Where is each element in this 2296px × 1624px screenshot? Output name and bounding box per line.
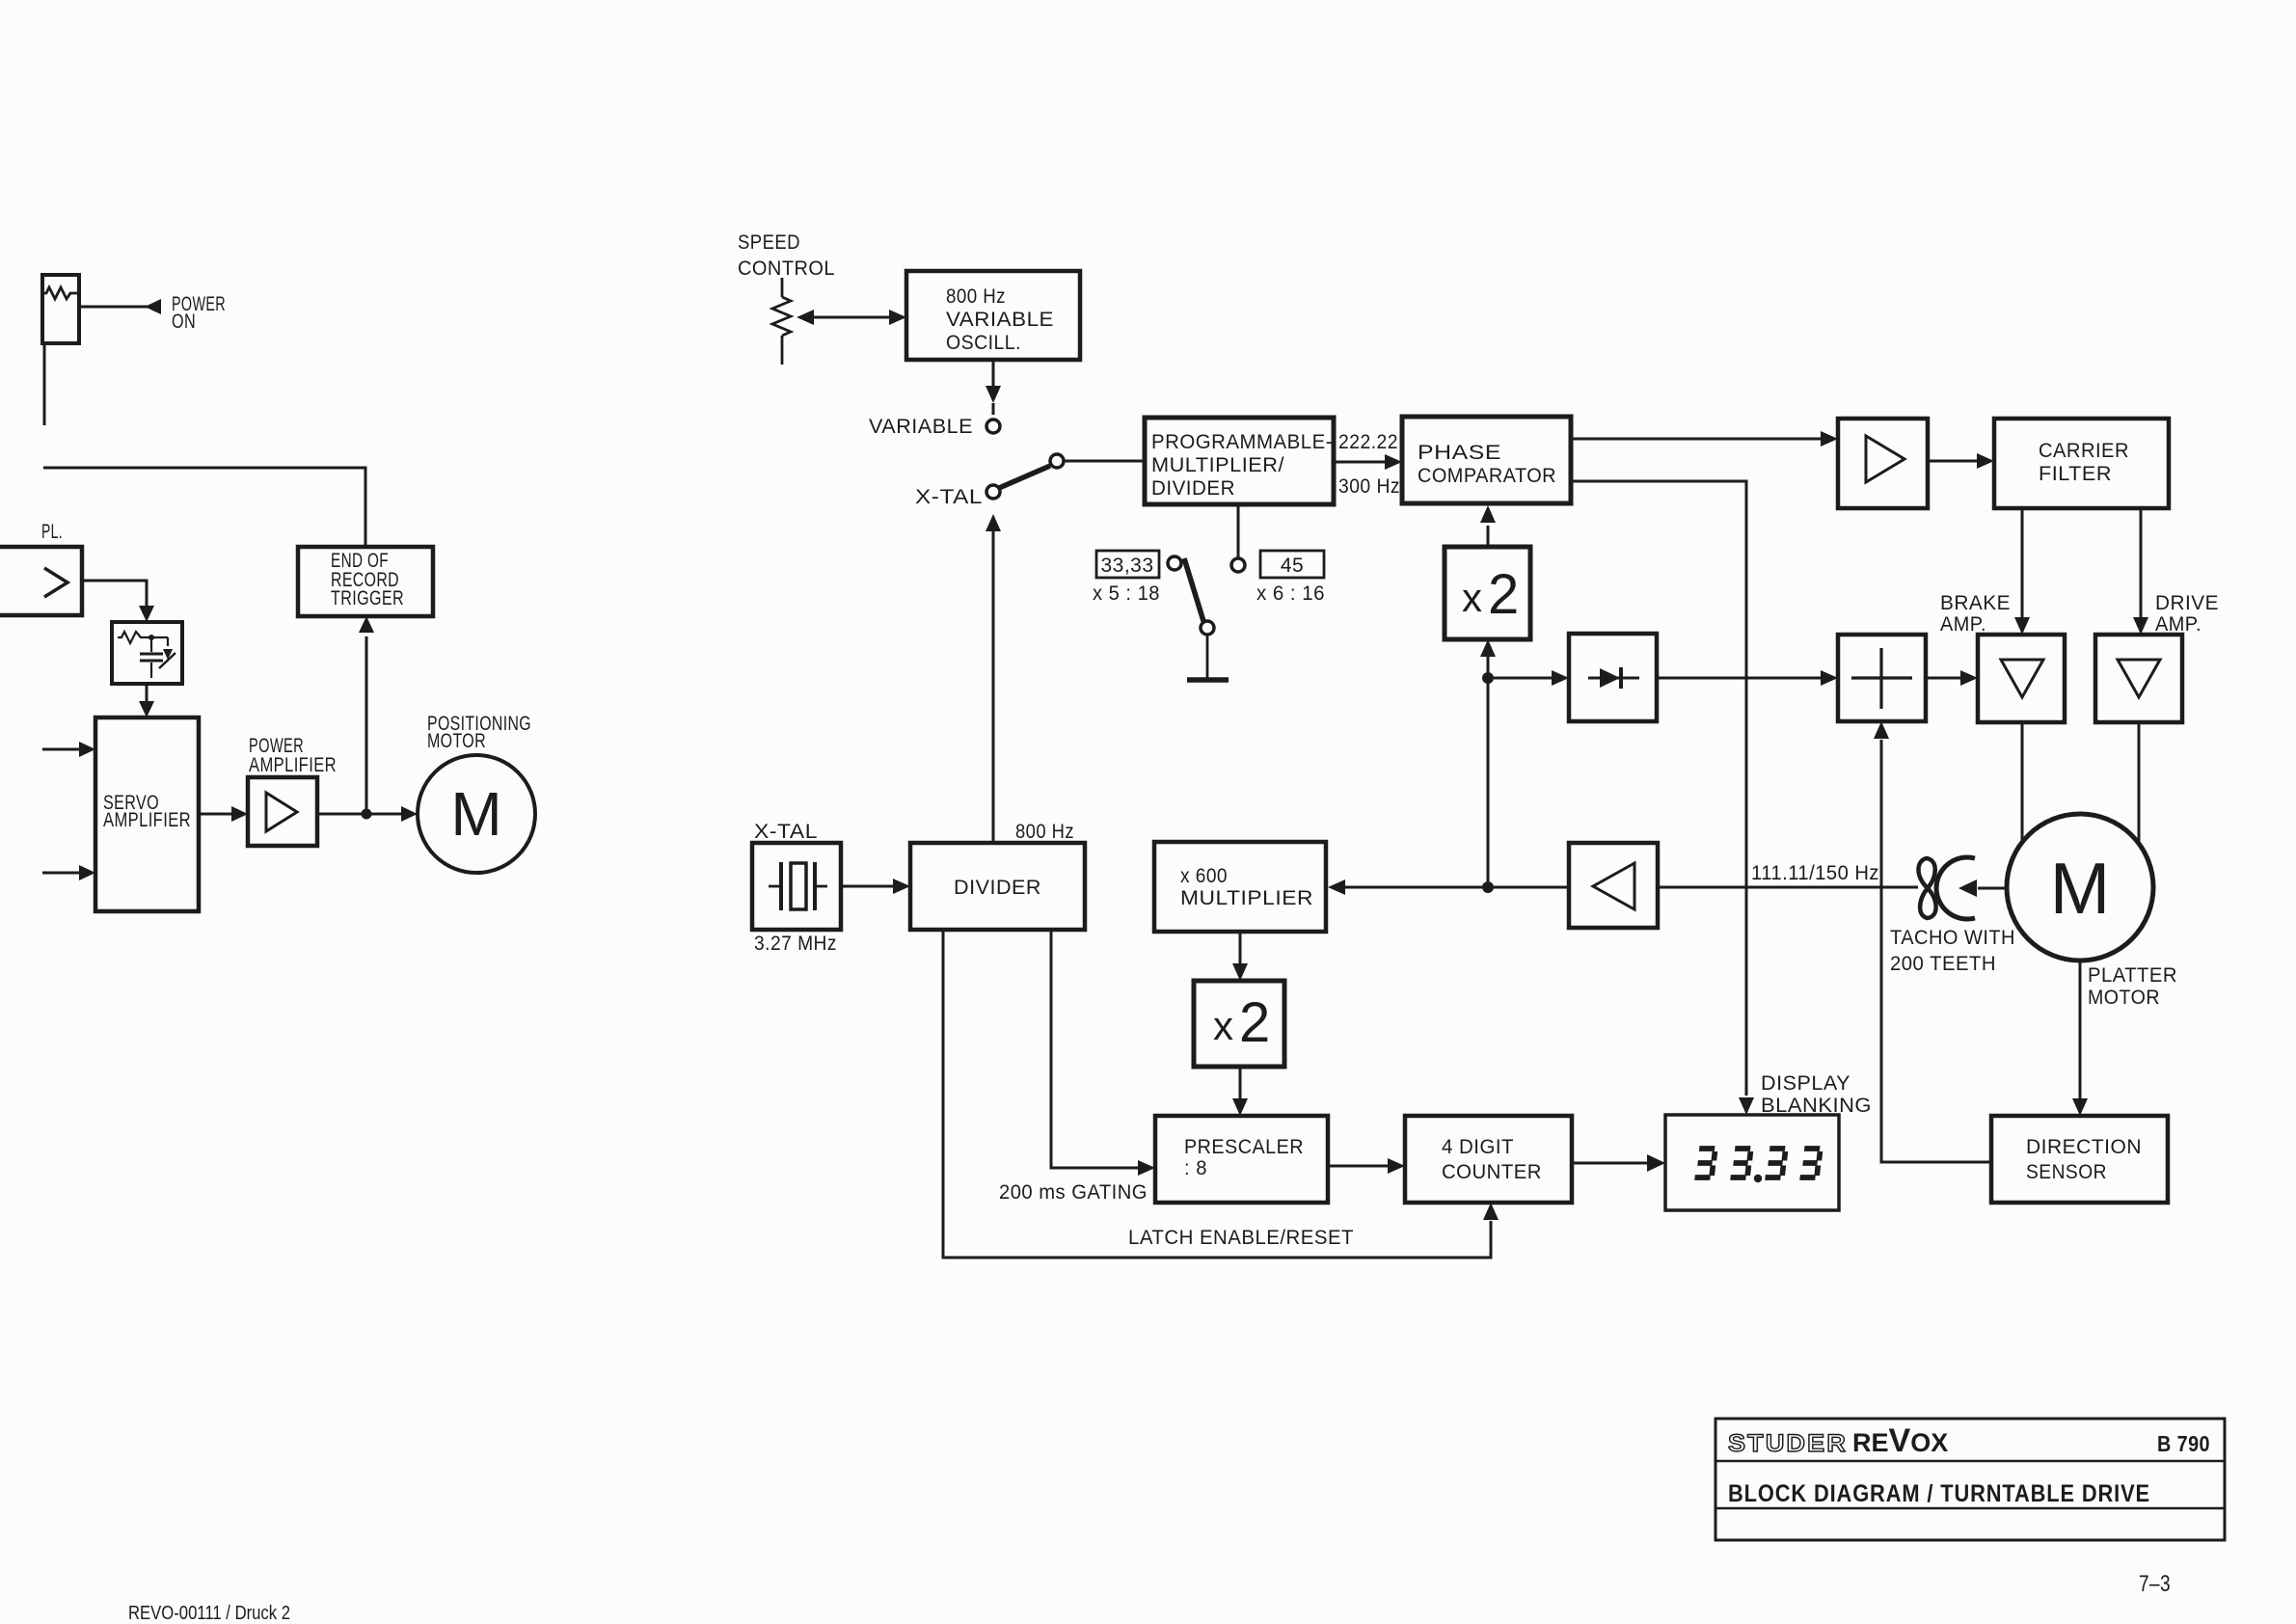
label 222.22 <box>1338 431 1398 453</box>
potentiometer SPEED CONTROL <box>772 278 791 365</box>
wire diode to summer <box>1657 670 1838 686</box>
block feedback amplifier (left) <box>1569 843 1658 928</box>
label B 790 <box>2157 1431 2210 1456</box>
mode contact (33 side) <box>1168 556 1181 570</box>
svg-text:AMPLIFIER: AMPLIFIER <box>103 809 191 831</box>
label x 5 : 18 <box>1093 582 1160 605</box>
svg-text:x 5 : 18: x 5 : 18 <box>1093 582 1160 605</box>
svg-text:AMP.: AMP. <box>2155 613 2201 636</box>
wire brake amp to motor <box>2021 722 2024 843</box>
block x600 MULTIPLIER <box>1154 842 1326 932</box>
label 800 Hz <box>1015 821 1074 843</box>
junction node at diode tap <box>1482 672 1494 684</box>
label PL. <box>41 521 63 543</box>
wire prescaler to counter <box>1328 1158 1405 1174</box>
svg-text:222.22: 222.22 <box>1338 431 1398 453</box>
svg-text:X-TAL: X-TAL <box>915 486 983 508</box>
VARIABLE contact <box>986 420 1000 433</box>
svg-text:800 Hz: 800 Hz <box>946 285 1006 308</box>
svg-text:DISPLAY: DISPLAY <box>1761 1072 1850 1095</box>
svg-text:800 Hz: 800 Hz <box>1015 821 1074 843</box>
svg-text:PRESCALER: PRESCALER <box>1184 1136 1304 1158</box>
svg-text:COUNTER: COUNTER <box>1442 1161 1542 1183</box>
wire programmable to mode contact <box>1237 504 1240 557</box>
svg-text:SENSOR: SENSOR <box>2026 1161 2107 1183</box>
svg-text:VARIABLE: VARIABLE <box>869 416 973 438</box>
arrowhead into RC network <box>139 604 154 622</box>
wire drive amp to motor <box>2138 722 2141 844</box>
positioning motor M <box>418 755 535 873</box>
svg-text:DIVIDER: DIVIDER <box>954 877 1041 899</box>
svg-text:PL.: PL. <box>41 521 63 543</box>
wire direction sensor to summer <box>1874 721 1991 1162</box>
svg-text:STUDER: STUDER <box>1728 1430 1848 1457</box>
svg-text:: 8: : 8 <box>1184 1157 1207 1179</box>
wire tacho junction up to x2 <box>1487 656 1490 887</box>
block CARRIER FILTER <box>1994 419 2169 508</box>
svg-text:MOTOR: MOTOR <box>427 730 486 752</box>
svg-text:SPEED: SPEED <box>738 231 800 254</box>
svg-text:REVOX: REVOX <box>1852 1422 1948 1459</box>
block diode shaper <box>1569 634 1657 721</box>
block 800 Hz VARIABLE OSCILL. <box>906 271 1080 360</box>
value box 33,33 <box>1096 551 1159 578</box>
svg-text:200 TEETH: 200 TEETH <box>1890 953 1996 975</box>
wire motor to direction sensor <box>2072 961 2088 1116</box>
svg-text:3.27 MHz: 3.27 MHz <box>754 933 837 955</box>
svg-text:300 Hz: 300 Hz <box>1338 475 1400 498</box>
wire RC network to servo amplifier <box>146 684 149 702</box>
svg-text:x 600: x 600 <box>1180 865 1228 887</box>
svg-text:M: M <box>2050 848 2110 929</box>
label BRAKE AMP. <box>1940 592 2011 636</box>
label 111.11/150 Hz <box>1751 862 1879 884</box>
block summer (+) <box>1838 635 1926 721</box>
svg-text:M: M <box>450 779 501 849</box>
switch pivot contact <box>1050 454 1064 468</box>
wire comparator to RC network <box>82 581 147 604</box>
wire programmable to phase comparator <box>1334 454 1402 470</box>
title BLOCK DIAGRAM / TURNTABLE DRIVE <box>1728 1480 2150 1507</box>
svg-text:FILTER: FILTER <box>2039 463 2112 485</box>
block drive amplifier <box>2095 635 2182 722</box>
wire divider latch to counter <box>943 930 1499 1258</box>
wire x2 to phase comparator <box>1480 505 1496 547</box>
wire crystal to divider <box>841 879 910 894</box>
svg-text:x: x <box>1462 575 1482 620</box>
wire x2 to prescaler <box>1232 1067 1248 1116</box>
platter motor M <box>2007 814 2153 961</box>
wire junction to diode <box>1488 670 1569 686</box>
svg-text:X-TAL: X-TAL <box>754 821 818 843</box>
wire to END OF RECORD TRIGGER <box>43 468 365 547</box>
wire buffer amp to carrier filter <box>1928 453 1994 469</box>
RC network block <box>112 622 182 684</box>
wire summer to brake amp <box>1926 670 1978 686</box>
comparator block (partial, page edge) <box>0 547 82 615</box>
wire feedback amp to x600 multiplier <box>1328 880 1569 895</box>
block brake amplifier <box>1978 635 2065 722</box>
X-TAL contact <box>986 485 1000 499</box>
servo input wire 2 <box>42 865 95 880</box>
svg-text:CARRIER: CARRIER <box>2039 440 2129 462</box>
wire power amplifier to positioning motor <box>317 806 418 822</box>
wire divider gating to prescaler <box>1051 930 1155 1176</box>
svg-text:AMPLIFIER: AMPLIFIER <box>249 754 337 776</box>
footer REVO-00111 / Druck 2 <box>128 1603 290 1624</box>
wire carrier filter to brake amp <box>2014 508 2030 635</box>
svg-text:x: x <box>1213 1003 1233 1048</box>
svg-text:ON: ON <box>172 311 196 333</box>
servo input wire 1 <box>42 742 95 757</box>
block x2 (tacho doubler) <box>1445 547 1530 639</box>
wire pot to oscillator (both arrows) <box>797 310 906 325</box>
svg-text:REVO-00111 / Druck 2: REVO-00111 / Druck 2 <box>128 1603 290 1624</box>
svg-text:VARIABLE: VARIABLE <box>946 309 1054 331</box>
block 4 DIGIT COUNTER <box>1405 1116 1572 1203</box>
junction node <box>362 809 372 820</box>
wire phase comparator to display blanking <box>1571 481 1754 1115</box>
mode switch lever <box>1184 558 1203 621</box>
block buffer amplifier <box>1838 419 1928 508</box>
block x2 (display doubler) <box>1194 981 1284 1067</box>
svg-text:200 ms GATING: 200 ms GATING <box>999 1181 1148 1204</box>
block PHASE COMPARATOR <box>1402 417 1571 503</box>
svg-text:TACHO WITH: TACHO WITH <box>1890 927 2015 949</box>
page number 7-3 <box>2139 1571 2171 1597</box>
title block frame <box>1715 1419 2225 1540</box>
tacho coupling symbol <box>1919 857 1976 919</box>
ground <box>1187 677 1229 683</box>
wire x600 to x2 doubler <box>1232 932 1248 981</box>
svg-text:DIRECTION: DIRECTION <box>2026 1136 2142 1158</box>
crystal block <box>752 843 841 930</box>
svg-text:BRAKE: BRAKE <box>1940 592 2011 614</box>
svg-text:MULTIPLIER/: MULTIPLIER/ <box>1151 454 1284 476</box>
label 200 ms GATING <box>999 1181 1148 1204</box>
arrowhead POWER ON (left) <box>145 299 161 314</box>
svg-text:111.11/150 Hz: 111.11/150 Hz <box>1751 862 1879 884</box>
block END OF RECORD TRIGGER <box>298 547 433 616</box>
wire divider 800Hz up to X-TAL contact <box>986 514 1001 843</box>
svg-text:PLATTER: PLATTER <box>2088 964 2177 987</box>
wire oscillator to VARIABLE contact <box>986 360 1001 415</box>
svg-text:BLOCK DIAGRAM / TURNTABLE DRIV: BLOCK DIAGRAM / TURNTABLE DRIVE <box>1728 1480 2150 1507</box>
label x 6 : 16 <box>1256 582 1325 605</box>
svg-text:MULTIPLIER: MULTIPLIER <box>1180 887 1313 909</box>
svg-text:DIVIDER: DIVIDER <box>1151 477 1235 500</box>
label X-TAL (switch) <box>915 486 983 508</box>
resistor block (partial, page edge) <box>42 275 79 343</box>
label DRIVE AMP. <box>2155 592 2219 636</box>
svg-text:x 6 : 16: x 6 : 16 <box>1256 582 1325 605</box>
label SPEED CONTROL <box>738 231 835 280</box>
label LATCH ENABLE/RESET <box>1128 1227 1354 1249</box>
svg-text:TRIGGER: TRIGGER <box>331 587 404 609</box>
label PLATTER MOTOR <box>2088 964 2177 1009</box>
wire motor to tacho <box>1958 880 2007 897</box>
svg-text:LATCH ENABLE/RESET: LATCH ENABLE/RESET <box>1128 1227 1354 1249</box>
block DIRECTION SENSOR <box>1991 1116 2168 1203</box>
logo REVOX <box>1852 1422 1948 1459</box>
label DISPLAY BLANKING <box>1761 1072 1872 1117</box>
mode switch lower contact <box>1201 621 1214 635</box>
logo STUDER <box>1728 1430 1848 1457</box>
svg-text:OSCILL.: OSCILL. <box>946 332 1021 354</box>
wire from block bottom <box>43 343 46 425</box>
wire pivot to programmable divider <box>1064 460 1145 463</box>
wire phase comparator to buffer amp <box>1571 431 1838 447</box>
block DIVIDER <box>910 843 1085 930</box>
wire servo to power amplifier <box>199 806 248 822</box>
arrowhead into servo top <box>139 701 154 717</box>
wire to POWER ON <box>79 306 150 309</box>
label TACHO WITH 200 TEETH <box>1890 927 2015 975</box>
block POWER AMPLIFIER (buffer) <box>248 777 317 846</box>
svg-text:45: 45 <box>1281 555 1304 577</box>
wire tacho to feedback amp <box>1658 886 1918 889</box>
svg-text:MOTOR: MOTOR <box>2088 987 2160 1009</box>
label POWER ON <box>172 293 226 333</box>
svg-text:AMP.: AMP. <box>1940 613 1986 636</box>
svg-text:CONTROL: CONTROL <box>738 257 835 280</box>
junction node on tacho wire <box>1482 881 1494 893</box>
svg-text:4 DIGIT: 4 DIGIT <box>1442 1136 1514 1158</box>
block SERVO AMPLIFIER <box>95 717 199 911</box>
svg-text:7–3: 7–3 <box>2139 1571 2171 1597</box>
block PRESCALER :8 <box>1155 1116 1328 1203</box>
label X-TAL (crystal) <box>754 821 818 843</box>
svg-text:COMPARATOR: COMPARATOR <box>1418 465 1556 487</box>
display 33.33 (7-segment) <box>1665 1115 1839 1210</box>
wire to ground <box>1206 635 1209 678</box>
label 300 Hz <box>1338 475 1400 498</box>
block PROGRAMMABLE MULTIPLIER/DIVIDER <box>1145 418 1334 504</box>
label 3.27 MHz <box>754 933 837 955</box>
label VARIABLE <box>869 416 973 438</box>
svg-text:PHASE: PHASE <box>1418 442 1501 464</box>
label POSITIONING MOTOR <box>427 713 531 752</box>
switch lever <box>999 466 1050 488</box>
svg-text:PROGRAMMABLE-: PROGRAMMABLE- <box>1151 431 1333 453</box>
svg-text:DRIVE: DRIVE <box>2155 592 2219 614</box>
wire carrier filter to drive amp <box>2133 508 2148 635</box>
svg-text:2: 2 <box>1488 563 1519 626</box>
svg-text:2: 2 <box>1239 991 1270 1054</box>
label POWER AMPLIFIER <box>249 735 337 776</box>
svg-text:33,33: 33,33 <box>1100 555 1153 577</box>
mode contact (45 side) <box>1231 558 1245 572</box>
wire counter to display <box>1572 1154 1665 1172</box>
svg-text:B 790: B 790 <box>2157 1431 2210 1456</box>
value box 45 <box>1260 551 1324 578</box>
arrow into x2 bottom <box>1480 639 1496 657</box>
wire junction up to END OF RECORD TRIGGER <box>359 616 374 814</box>
